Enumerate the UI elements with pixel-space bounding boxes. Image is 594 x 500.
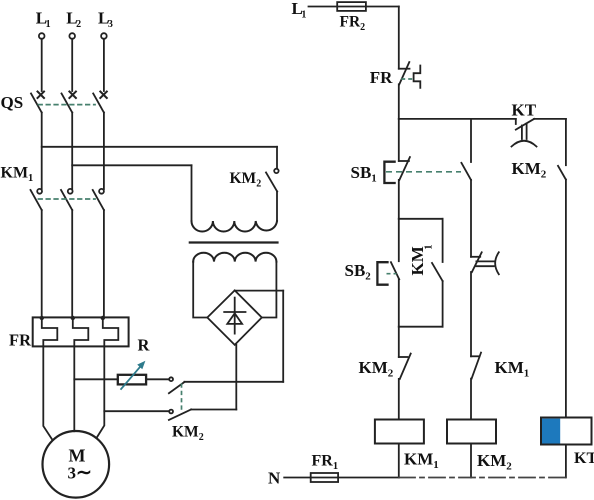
- svg-text:KT: KT: [512, 101, 537, 120]
- svg-text:QS: QS: [1, 93, 24, 112]
- svg-text:N: N: [268, 469, 281, 488]
- svg-text:FR: FR: [370, 68, 393, 87]
- svg-text:FR: FR: [9, 331, 32, 350]
- svg-text:R: R: [138, 336, 151, 355]
- svg-text:3∼: 3∼: [68, 463, 92, 484]
- svg-text:KT: KT: [574, 450, 594, 467]
